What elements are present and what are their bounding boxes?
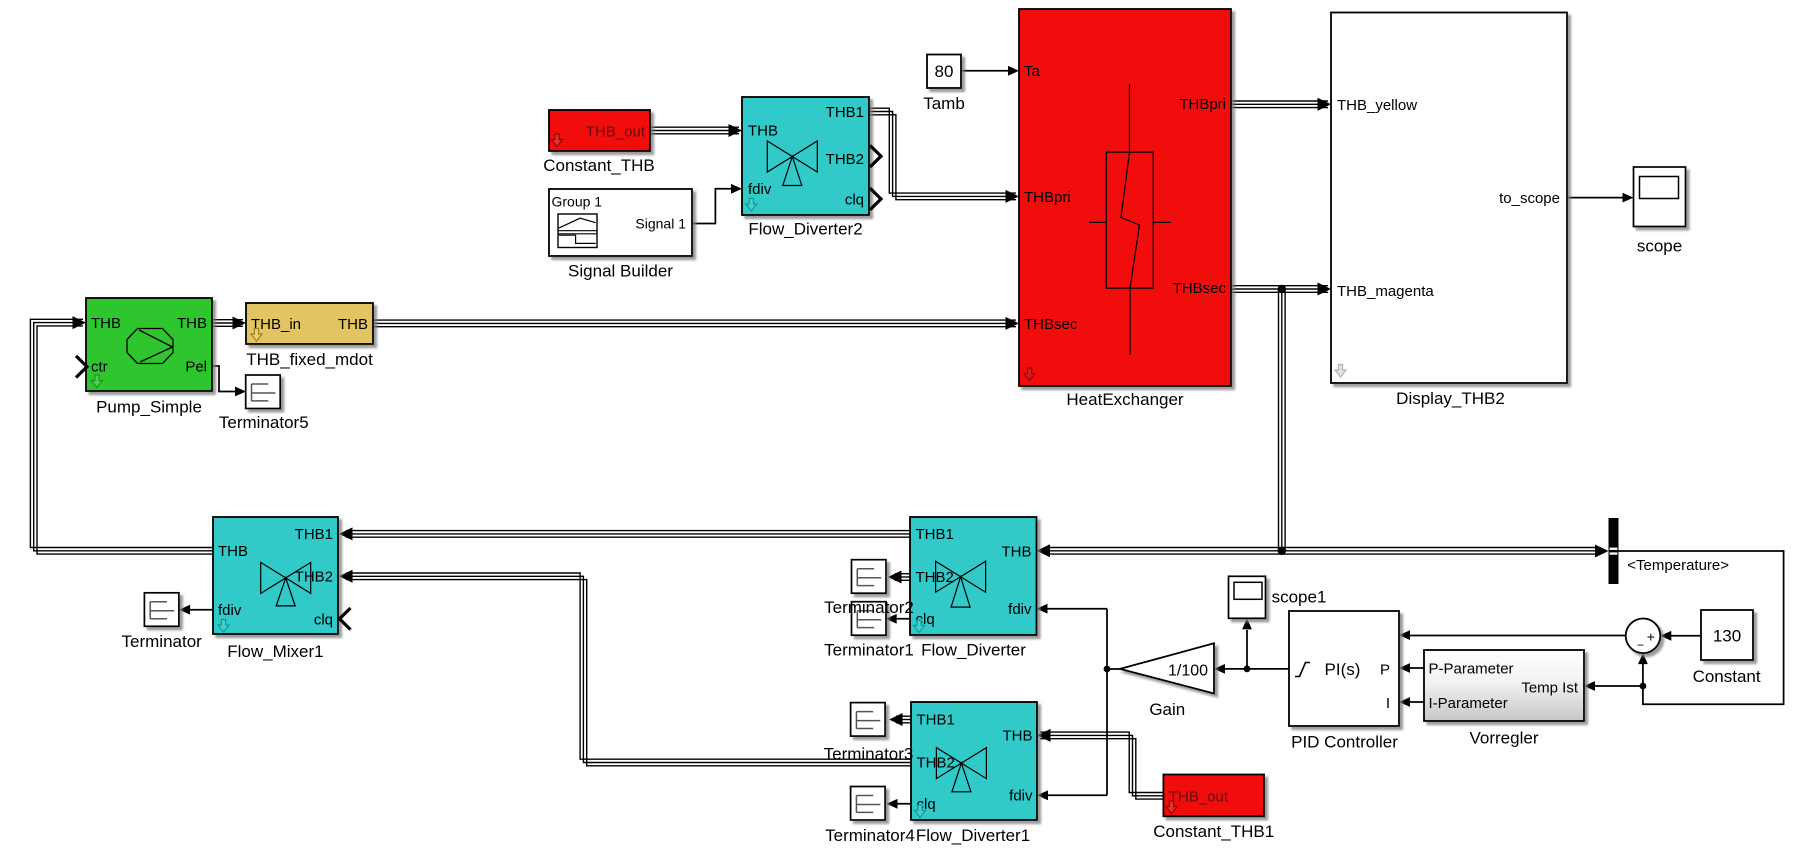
svg-text:fdiv: fdiv (218, 602, 242, 619)
svg-text:THBsec: THBsec (1024, 316, 1078, 333)
svg-text:Group 1: Group 1 (552, 194, 603, 210)
svg-text:Terminator4: Terminator4 (825, 826, 915, 845)
svg-text:130: 130 (1713, 627, 1741, 646)
svg-text:I: I (1386, 695, 1390, 712)
svg-text:Flow_Diverter: Flow_Diverter (921, 640, 1026, 659)
svg-text:1/100: 1/100 (1168, 662, 1208, 679)
svg-text:Flow_Diverter1: Flow_Diverter1 (916, 826, 1030, 845)
svg-text:scope1: scope1 (1272, 587, 1327, 606)
svg-text:THB: THB (218, 543, 248, 560)
svg-text:I-Parameter: I-Parameter (1429, 695, 1508, 712)
svg-text:THB_out: THB_out (1169, 788, 1229, 805)
svg-text:clq: clq (314, 611, 333, 628)
svg-text:THB2: THB2 (917, 754, 955, 771)
svg-text:THB_fixed_mdot: THB_fixed_mdot (246, 350, 373, 369)
svg-text:THB1: THB1 (917, 712, 955, 729)
svg-text:P: P (1380, 661, 1390, 678)
svg-text:Constant_THB1: Constant_THB1 (1153, 822, 1274, 841)
svg-text:Pel: Pel (185, 358, 207, 375)
svg-text:Terminator5: Terminator5 (219, 413, 309, 432)
svg-text:THB: THB (338, 316, 368, 333)
svg-text:THBsec: THBsec (1173, 280, 1227, 297)
svg-text:Signal 1: Signal 1 (635, 216, 686, 232)
svg-text:PI(s): PI(s) (1325, 660, 1361, 679)
svg-text:THB1: THB1 (916, 526, 954, 543)
svg-text:THB2: THB2 (916, 569, 954, 586)
svg-text:Temp Ist: Temp Ist (1521, 679, 1579, 696)
svg-text:Vorregler: Vorregler (1470, 729, 1539, 748)
svg-text:THB_out: THB_out (586, 123, 646, 140)
svg-text:THBpri: THBpri (1024, 189, 1071, 206)
svg-text:fdiv: fdiv (1009, 788, 1033, 805)
svg-text:THB1: THB1 (826, 104, 864, 121)
svg-text:<Temperature>: <Temperature> (1627, 557, 1729, 574)
svg-text:THB_yellow: THB_yellow (1337, 97, 1417, 114)
svg-text:80: 80 (935, 62, 954, 81)
svg-text:+: + (1647, 629, 1655, 645)
svg-text:Tamb: Tamb (923, 94, 965, 113)
svg-text:fdiv: fdiv (1008, 601, 1032, 618)
svg-text:Ta: Ta (1024, 63, 1041, 80)
svg-text:−: − (1637, 638, 1644, 652)
svg-text:Terminator3: Terminator3 (824, 745, 914, 764)
svg-text:Pump_Simple: Pump_Simple (96, 398, 202, 417)
svg-text:THB_magenta: THB_magenta (1337, 283, 1434, 300)
svg-text:P-Parameter: P-Parameter (1429, 660, 1514, 677)
svg-text:clq: clq (845, 191, 864, 208)
svg-text:ctr: ctr (91, 358, 108, 375)
svg-text:THB: THB (91, 315, 121, 332)
svg-text:Flow_Mixer1: Flow_Mixer1 (227, 642, 323, 661)
svg-text:scope: scope (1637, 237, 1682, 256)
svg-text:HeatExchanger: HeatExchanger (1066, 390, 1184, 409)
svg-text:THB2: THB2 (295, 569, 333, 586)
svg-text:Gain: Gain (1149, 700, 1185, 719)
svg-text:THB: THB (1003, 728, 1033, 745)
svg-text:PID Controller: PID Controller (1291, 733, 1398, 752)
svg-text:Terminator2: Terminator2 (824, 598, 914, 617)
svg-text:Constant_THB: Constant_THB (543, 156, 655, 175)
svg-text:THBpri: THBpri (1179, 96, 1226, 113)
svg-text:THB: THB (748, 123, 778, 140)
svg-text:Flow_Diverter2: Flow_Diverter2 (748, 220, 862, 239)
svg-text:Constant: Constant (1693, 667, 1761, 686)
svg-text:THB2: THB2 (826, 151, 864, 168)
svg-text:Signal Builder: Signal Builder (568, 262, 673, 281)
svg-text:fdiv: fdiv (748, 181, 772, 198)
svg-text:Terminator1: Terminator1 (824, 640, 914, 659)
svg-text:Display_THB2: Display_THB2 (1396, 389, 1505, 408)
svg-text:Terminator: Terminator (122, 632, 203, 651)
svg-text:THB: THB (1002, 543, 1032, 560)
svg-text:THB: THB (177, 315, 207, 332)
svg-text:THB1: THB1 (295, 526, 333, 543)
svg-text:to_scope: to_scope (1499, 190, 1560, 207)
